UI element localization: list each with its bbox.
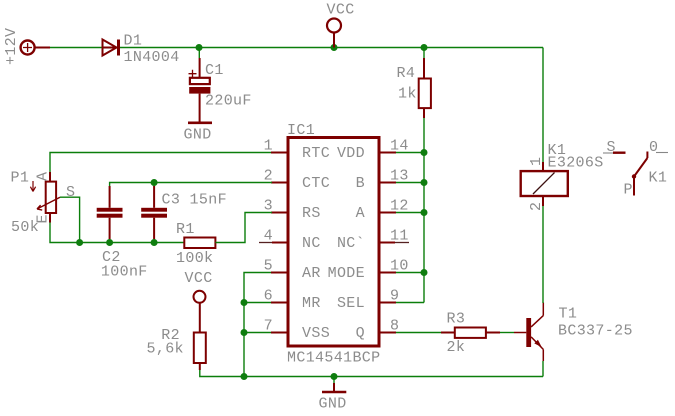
wire pin6 branch <box>244 302 271 304</box>
pin 2 CTC stub <box>271 182 288 184</box>
pin 11 NC' stub <box>379 242 409 244</box>
wire C2 bottom <box>109 239 111 243</box>
pin 3 RS stub <box>271 212 288 214</box>
resistor R3 <box>455 328 486 338</box>
relay K1 coil <box>521 162 568 206</box>
svg-text:C3 15nF: C3 15nF <box>162 192 227 209</box>
node junction C2 bottom <box>106 239 113 246</box>
pin 5 AR stub <box>271 272 288 274</box>
wire relay to collector <box>542 206 544 303</box>
ground GND top <box>188 122 212 125</box>
pin 6 MR stub <box>271 302 288 304</box>
wire R4 to pin9 vertical <box>423 118 425 303</box>
capacitor C2 <box>97 186 123 239</box>
wire pin9 to bus <box>396 302 424 304</box>
wire pin13 to bus <box>396 182 424 184</box>
node junction pin10 <box>421 269 428 276</box>
wire R1 to pin3 <box>215 213 272 243</box>
svg-text:VDD: VDD <box>337 145 365 162</box>
potentiometer P1 <box>30 172 60 223</box>
wire pin1 to P1 <box>50 153 271 173</box>
wire pot wiper <box>60 197 80 242</box>
wire emitter to rail <box>542 361 544 377</box>
diode D1 <box>103 40 121 56</box>
svg-text:K1: K1 <box>649 170 668 187</box>
svg-text:AR: AR <box>302 265 321 282</box>
wire pin5 branch <box>244 273 271 377</box>
svg-text:220uF: 220uF <box>205 93 252 110</box>
svg-text:100nF: 100nF <box>101 264 148 281</box>
svg-text:E3206S: E3206S <box>548 155 604 172</box>
wire C3 top <box>153 183 155 187</box>
supply VCC lower <box>194 291 206 333</box>
ic IC1 body <box>288 138 379 347</box>
wire pin14 to bus <box>396 152 424 154</box>
node junction pin7 <box>241 329 248 336</box>
svg-text:RTC: RTC <box>302 145 330 162</box>
svg-text:2k: 2k <box>447 339 466 356</box>
transistor T1 <box>514 303 543 362</box>
svg-text:1N4004: 1N4004 <box>124 49 180 66</box>
pin 4 NC stub <box>259 242 288 244</box>
switch contact K1 <box>603 152 668 196</box>
pin 7 VSS stub <box>271 332 288 334</box>
svg-text:0: 0 <box>649 139 658 156</box>
svg-text:VCC: VCC <box>327 2 355 19</box>
svg-text:C1: C1 <box>205 62 224 79</box>
supply VCC top <box>327 19 341 48</box>
node junction C3 bottom <box>151 239 158 246</box>
resistor R4 <box>419 48 431 119</box>
wire +12V to diode <box>50 47 103 49</box>
wire R3 to base <box>486 332 500 334</box>
node junction wiper <box>76 239 83 246</box>
svg-text:NC: NC <box>302 235 321 252</box>
wire pin2 to C2 <box>110 183 272 187</box>
wire pin10 to bus <box>396 272 424 274</box>
svg-text:S: S <box>607 139 616 156</box>
svg-text:P1: P1 <box>11 170 30 187</box>
node junction pin14 <box>421 149 428 156</box>
pin 8 Q stub <box>379 332 396 334</box>
wire pin8 to R3 <box>396 332 441 334</box>
svg-text:1k: 1k <box>398 86 417 103</box>
svg-text:MODE: MODE <box>328 265 365 282</box>
svg-text:MC14541BCP: MC14541BCP <box>287 350 381 367</box>
wire top rail to relay and collector <box>542 48 544 163</box>
svg-text:11: 11 <box>390 228 409 245</box>
svg-text:+12V: +12V <box>3 28 20 65</box>
svg-text:S: S <box>66 184 75 201</box>
svg-text:100k: 100k <box>176 250 213 267</box>
svg-text:E: E <box>35 214 52 223</box>
wire bottom rail <box>200 370 543 377</box>
wire top rail diode to corner <box>120 47 543 49</box>
node junction pins567 rail <box>241 373 248 380</box>
capacitor C1 <box>189 58 211 122</box>
svg-text:R4: R4 <box>397 65 416 82</box>
pin 10 MODE stub <box>379 272 396 274</box>
ground GND bottom <box>322 377 346 393</box>
svg-text:VCC: VCC <box>185 270 213 287</box>
svg-text:A: A <box>35 172 52 181</box>
wire C3 bottom <box>153 239 155 243</box>
svg-text:R3: R3 <box>447 311 466 328</box>
svg-text:Q: Q <box>356 325 365 342</box>
svg-text:VSS: VSS <box>302 325 330 342</box>
svg-text:GND: GND <box>319 396 347 413</box>
wire pin7 branch <box>244 332 271 334</box>
node junction pin6 <box>241 299 248 306</box>
svg-text:A: A <box>356 205 365 222</box>
pin 1 RTC stub <box>271 152 288 154</box>
svg-text:CTC: CTC <box>302 175 330 192</box>
pin 9 SEL stub <box>379 302 396 304</box>
svg-text:GND: GND <box>184 127 212 144</box>
supply connector +12V <box>21 41 50 55</box>
svg-text:NC`: NC` <box>337 235 365 252</box>
capacitor C3 <box>141 186 167 239</box>
svg-text:MR: MR <box>302 295 321 312</box>
node junction C3 top <box>151 179 158 186</box>
node junction R4 tap <box>421 44 428 51</box>
svg-text:BC337-25: BC337-25 <box>558 323 633 340</box>
svg-text:P: P <box>624 182 633 199</box>
resistor R1 <box>184 238 215 249</box>
svg-text:1: 1 <box>528 157 545 166</box>
svg-text:R1: R1 <box>176 221 195 238</box>
resistor R2 <box>194 333 206 371</box>
pin 14 VDD stub <box>379 152 396 154</box>
svg-text:B: B <box>356 175 365 192</box>
wire pot bottom rail <box>50 223 185 243</box>
node junction C1 tap <box>196 44 203 51</box>
svg-text:T1: T1 <box>559 306 578 323</box>
node junction pin13 <box>421 179 428 186</box>
wire pin12 to bus <box>396 212 424 214</box>
node junction pin12 <box>421 209 428 216</box>
node junction VCC tap <box>331 44 338 51</box>
node junction GND rail <box>331 373 338 380</box>
pin 13 B stub <box>379 182 396 184</box>
svg-text:IC1: IC1 <box>287 122 315 139</box>
wire C1 stub <box>198 48 200 59</box>
svg-text:RS: RS <box>302 205 321 222</box>
svg-text:SEL: SEL <box>337 295 365 312</box>
svg-text:4: 4 <box>264 228 273 245</box>
svg-text:5,6k: 5,6k <box>147 341 184 358</box>
pin 12 A stub <box>379 212 396 214</box>
